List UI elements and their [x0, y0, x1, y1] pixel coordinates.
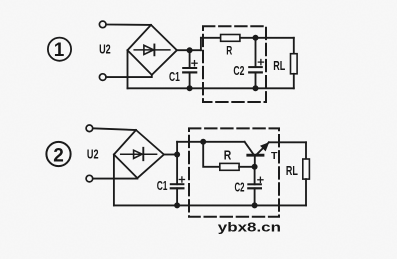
- resistor R (circuit 2): [220, 163, 239, 170]
- wire: bottom terminal to bridge bottom vertex (circuit 1): [106, 75, 152, 77]
- svg-text:U2: U2: [87, 146, 99, 161]
- capacitor C2 (circuit 1): [249, 38, 263, 89]
- node: C1 top junction (circuit 2): [175, 152, 180, 157]
- svg-text:1: 1: [54, 40, 65, 61]
- wire: top terminal to bridge top vertex (circuit 2): [93, 128, 136, 130]
- wire: bottom rail (circuit 2): [114, 204, 306, 206]
- resistor RL (circuit 1): [291, 38, 298, 89]
- node: C2 bottom junction (circuit 2): [252, 203, 257, 208]
- node: C2 top junction (circuit 1): [253, 35, 258, 40]
- wire: riser above C1 (circuit 2): [176, 142, 178, 155]
- terminal top-left (circuit 1): [99, 21, 106, 28]
- capacitor C1 (circuit 1): [183, 50, 197, 88]
- node: rail junction above R (circuit 2): [201, 139, 206, 144]
- node: C1 top junction (circuit 1): [187, 48, 192, 53]
- svg-text:C2: C2: [235, 180, 245, 194]
- node: C1 bottom junction (circuit 2): [175, 203, 180, 208]
- terminal top-left (circuit 2): [86, 125, 93, 132]
- wire: bridge DC- drop to bottom rail (circuit 1): [127, 50, 129, 88]
- capacitor C2 (circuit 2): [248, 167, 263, 206]
- resistor RL (circuit 2): [303, 142, 310, 205]
- wire: emitter to RL (circuit 2): [269, 141, 306, 143]
- wire: riser into dashed box (circuit 1): [200, 38, 202, 50]
- circled number 1: [48, 38, 71, 61]
- transistor T (circuit 2): [245, 142, 269, 167]
- wire: top terminal to bridge top vertex (circuit 1): [106, 24, 151, 26]
- wire: bridge DC- drop to bottom rail (circuit 2): [113, 155, 115, 206]
- wire: top rail inside box to RL (circuit 1): [201, 37, 294, 39]
- node: C2 bottom junction (circuit 1): [253, 86, 258, 91]
- svg-text:U2: U2: [99, 41, 111, 56]
- wire: bottom rail (circuit 1): [128, 87, 294, 89]
- svg-text:C1: C1: [169, 70, 180, 84]
- svg-text:T: T: [271, 150, 278, 162]
- svg-text:C1: C1: [157, 179, 168, 193]
- diode inside bridge B2: [121, 148, 157, 160]
- svg-text:R: R: [224, 149, 232, 163]
- diode inside bridge B1: [134, 45, 170, 56]
- svg-text:RL: RL: [273, 59, 285, 73]
- wire: R to base node (circuit 2): [239, 166, 255, 168]
- svg-text:2: 2: [53, 145, 64, 166]
- bridge rectifier B2 (diamond, circuit 2): [114, 130, 164, 178]
- terminal bottom-left (circuit 1): [99, 74, 106, 81]
- wire: top rail to transistor collector (circuit 2): [177, 141, 245, 143]
- dashed filter box (circuit 1): [203, 26, 266, 102]
- bridge rectifier B1 (diamond, circuit 1): [128, 25, 177, 75]
- wire: bottom terminal to bridge bottom vertex (circuit 2): [93, 177, 137, 180]
- circled number 2: [46, 142, 70, 166]
- wire: drop from rail junction to R (circuit 2): [203, 142, 220, 167]
- node: base/R/C2 junction (circuit 2): [252, 164, 257, 169]
- svg-text:RL: RL: [286, 164, 298, 178]
- node: C1 bottom junction (circuit 1): [187, 86, 192, 91]
- wire: bridge DC+ output to riser (circuit 1): [177, 49, 201, 51]
- capacitor C1 (circuit 2): [171, 155, 185, 206]
- svg-text:R: R: [226, 45, 232, 57]
- svg-text:C2: C2: [233, 64, 244, 78]
- svg-text:ybx8.cn: ybx8.cn: [218, 220, 281, 235]
- dashed regulator box (circuit 2): [189, 128, 279, 216]
- resistor R (circuit 1): [221, 35, 240, 42]
- wire: bridge DC+ output (circuit 2): [164, 154, 177, 156]
- terminal bottom-left (circuit 2): [86, 175, 93, 182]
